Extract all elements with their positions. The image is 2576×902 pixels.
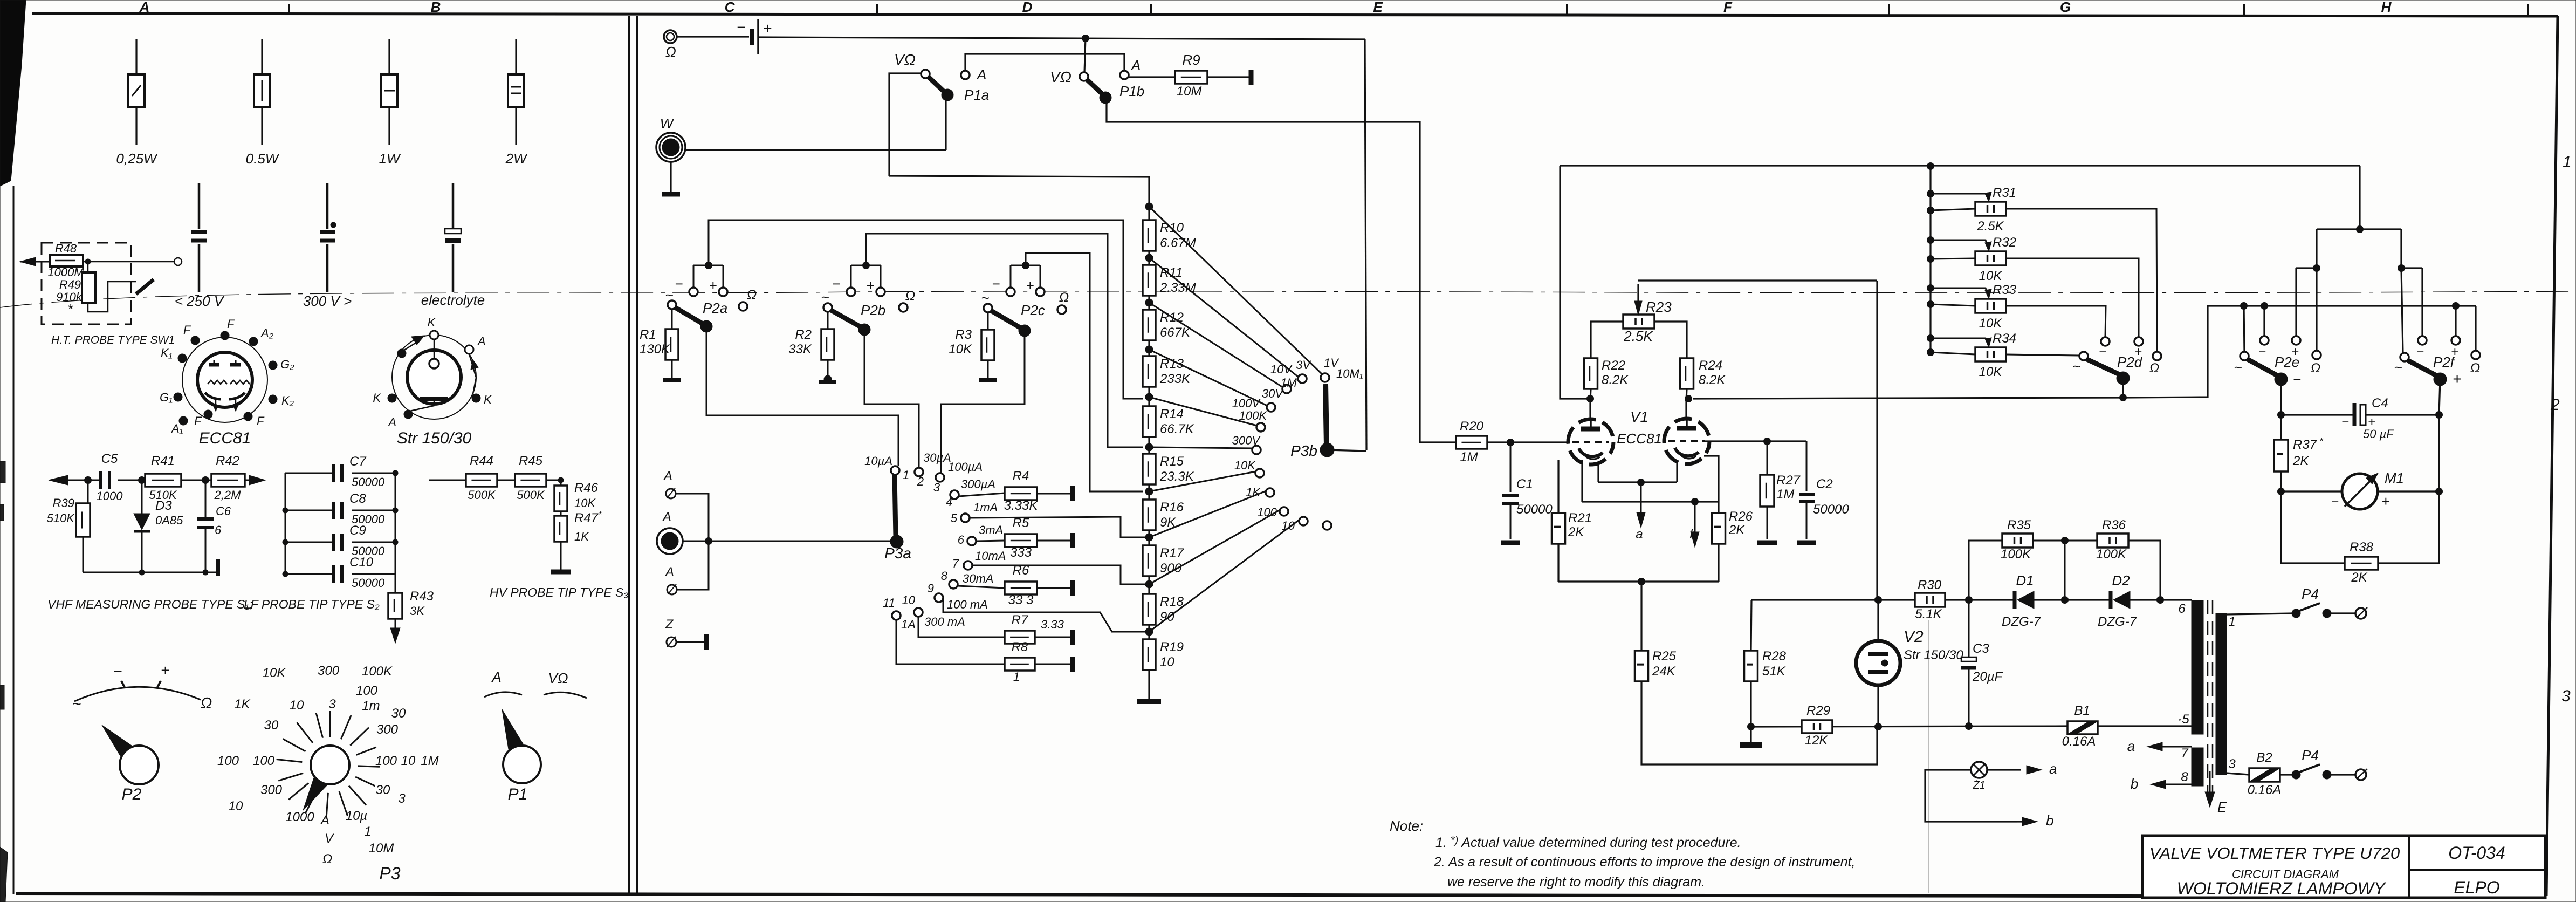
svg-text:20µF: 20µF (1972, 669, 2003, 684)
resistor R1 (665, 309, 678, 360)
svg-text:Ω: Ω (2311, 361, 2320, 375)
R31 out wire (2006, 209, 2157, 352)
svg-text:7: 7 (952, 557, 959, 570)
svg-text:HV PROBE TIP TYPE S₃: HV PROBE TIP TYPE S₃ (490, 585, 629, 599)
P3a arm dot (890, 535, 903, 548)
junction dot A (705, 538, 712, 545)
svg-text:H: H (2381, 0, 2392, 15)
battery plus label (763, 20, 772, 37)
P2e out (2278, 379, 2285, 419)
svg-text:B2: B2 (2256, 750, 2272, 765)
P2e arm (2248, 359, 2277, 375)
probe arrow left (20, 257, 51, 266)
svg-text:2. As a result of continuo: 2. As a result of continuous efforts to … (1433, 855, 1855, 870)
svg-text:R3: R3 (955, 327, 972, 342)
legend resistor 0.5W (254, 39, 270, 145)
P2e minus contact (2258, 336, 2269, 359)
label 50000-1 (352, 512, 385, 526)
label R21 (1568, 511, 1592, 525)
svg-text:~: ~ (72, 695, 81, 712)
junction dot D2 out (2157, 597, 2164, 604)
resistor R3 (981, 312, 994, 360)
svg-text:R35: R35 (2007, 518, 2031, 532)
svg-text:300 mA: 300 mA (924, 615, 965, 628)
svg-text:10: 10 (401, 754, 416, 768)
svg-text:a: a (2127, 738, 2135, 754)
svg-text:R42: R42 (216, 454, 239, 468)
svg-text:a: a (1636, 527, 1643, 542)
resistor R9 (1175, 71, 1207, 84)
P2b bracket (847, 262, 885, 297)
terminal A upper open (666, 488, 676, 498)
svg-text:8.2K: 8.2K (1699, 373, 1726, 387)
terminal A lower open (667, 584, 677, 594)
label A main (662, 510, 671, 524)
svg-text:A: A (976, 66, 986, 83)
svg-text:33K: 33K (788, 342, 812, 357)
svg-text:2: 2 (917, 475, 924, 488)
R34 out wire (2006, 354, 2079, 356)
svg-text:−: − (2293, 371, 2301, 387)
label R39 (53, 496, 74, 510)
svg-text:P2c: P2c (1021, 302, 1045, 318)
svg-text:10K: 10K (1979, 269, 2003, 283)
svg-text:C7: C7 (349, 454, 367, 469)
P2a Omega contact (739, 288, 757, 311)
P2d minus contact (2099, 337, 2110, 359)
scan mark bottom-left (0, 847, 8, 902)
svg-text:R34: R34 (1993, 331, 2016, 346)
R24 anode dot (1685, 395, 1692, 402)
resistor R43 (388, 593, 402, 619)
wire R6 out (1037, 587, 1070, 589)
svg-text:6: 6 (2178, 602, 2186, 616)
label P1b (1119, 83, 1144, 99)
label 3.33K (1004, 498, 1039, 513)
meter rail (2244, 305, 2476, 306)
P2c arm wire to contact3 (941, 334, 1025, 473)
svg-text:50000: 50000 (352, 576, 385, 590)
svg-text:R17: R17 (1160, 546, 1185, 561)
wire terminal-battery (677, 36, 749, 37)
label minus C4 (2341, 415, 2349, 429)
label 0A85 (155, 514, 183, 527)
border tick (2527, 4, 2529, 15)
svg-text:100 mA: 100 mA (947, 598, 988, 611)
border tick (1150, 4, 1152, 15)
trimmer R31 (1975, 202, 2006, 216)
svg-text:100: 100 (375, 754, 397, 768)
svg-text:3: 3 (2561, 687, 2571, 705)
svg-text:P4: P4 (2302, 747, 2319, 763)
label A P1a (976, 66, 986, 83)
svg-text:1. *) Actual value determine: 1. *) Actual value determined during tes… (1435, 835, 1741, 850)
R24 bottom lead (1686, 389, 1687, 400)
P2a tilde contact (665, 287, 676, 309)
P2e sub-bracket (2296, 268, 2317, 351)
P2c tilde contact (981, 290, 992, 312)
svg-text:R49: R49 (59, 278, 81, 291)
svg-text:Ω: Ω (2470, 361, 2480, 375)
svg-text:0A85: 0A85 (155, 514, 183, 527)
svg-text:C3: C3 (1973, 641, 1989, 656)
bus dot R34 b (1927, 349, 1934, 356)
P3b contact labels (1232, 356, 1363, 532)
label Note (1390, 818, 1423, 834)
triode V1a (1568, 419, 1613, 464)
trimmer R30 (1915, 593, 1945, 607)
resistor R2 (821, 312, 834, 360)
label R5 (1013, 516, 1029, 530)
label 7 (2181, 746, 2189, 761)
label P1 (508, 785, 528, 803)
svg-text:P1: P1 (508, 785, 528, 803)
svg-text:~: ~ (981, 290, 989, 306)
resistor R27 (1760, 441, 1774, 539)
arrow a (1637, 482, 1645, 528)
resistor R15 (1143, 454, 1156, 484)
wire chain above R14 (1148, 387, 1150, 406)
note line 1 (1435, 835, 1741, 850)
P2d arm (2087, 359, 2119, 374)
resistor R18 (1143, 594, 1156, 625)
svg-text:−: − (737, 19, 745, 36)
sheet top border (32, 13, 2558, 16)
label R37 (2293, 436, 2324, 452)
cathode bar b (1582, 501, 1719, 502)
label R10 (1160, 221, 1184, 235)
svg-text:100: 100 (217, 754, 239, 768)
border letter A (139, 0, 150, 15)
resistor R49 (82, 262, 95, 303)
svg-text:3.33K: 3.33K (1004, 498, 1039, 513)
wire chain above R10 (1148, 207, 1150, 220)
svg-text:R46: R46 (574, 481, 599, 495)
svg-text:0.5W: 0.5W (246, 151, 280, 167)
wire chain above R17 (1148, 530, 1150, 545)
R28 riser (1751, 600, 1751, 651)
P2 knob (102, 725, 159, 784)
label R14 (1160, 407, 1184, 421)
R36 right wire (2128, 541, 2160, 596)
label plus C4 (2368, 415, 2375, 429)
R22 anode dot (1587, 395, 1594, 402)
C4 row left (2281, 414, 2353, 415)
svg-text:R11: R11 (1160, 265, 1183, 280)
svg-text:10µ: 10µ (346, 809, 368, 823)
ground R3 (979, 360, 997, 380)
label 51K (1762, 664, 1786, 679)
border letter F (1723, 0, 1733, 15)
P2f sub-bracket (2401, 268, 2422, 353)
wire chain above R11 (1148, 251, 1150, 265)
tube ECC81 pin dots and labels (160, 317, 294, 435)
psu lower rail (1751, 726, 2067, 727)
svg-text:A: A (664, 565, 674, 579)
label Str 150/30 V2 (1904, 648, 1963, 662)
label electrolyte (421, 292, 485, 308)
svg-text:−: − (2416, 345, 2424, 359)
contact 100V (1256, 423, 1265, 432)
title block box (2142, 836, 2545, 898)
label D3 (155, 498, 172, 513)
V1b anode lead (1685, 400, 1687, 419)
title VALVE VOLTMETER (2149, 844, 2400, 863)
cathode bar a (1598, 481, 1677, 483)
terminator R5 (1070, 533, 1075, 548)
svg-text:1M: 1M (1280, 376, 1297, 389)
svg-text:B1: B1 (2074, 703, 2090, 718)
svg-text:·5: ·5 (2177, 712, 2189, 727)
P4 switch upper (2292, 603, 2355, 618)
label R16 value (1160, 515, 1176, 530)
label 0.16A B2 (2248, 783, 2282, 797)
P2f plus contact (2451, 336, 2460, 359)
svg-text:10K: 10K (1234, 459, 1256, 472)
svg-text:C6: C6 (216, 504, 231, 518)
label R19 (1160, 640, 1184, 654)
svg-text:R38: R38 (2350, 540, 2374, 555)
battery (752, 19, 758, 54)
resistor R37 (2274, 415, 2288, 471)
svg-text:10K: 10K (263, 666, 286, 680)
legend panel divider double line (629, 16, 637, 894)
P2b arm (831, 310, 861, 327)
wire c5 long (970, 517, 1145, 537)
V1b cathode leads (1677, 456, 1719, 513)
contact 7 P3a (964, 561, 972, 570)
resistor R28 (1744, 651, 1758, 681)
label HV probe (490, 585, 629, 599)
label 2,2M (214, 488, 242, 502)
label C6 (216, 504, 231, 518)
V1a cathode leads (1582, 460, 1598, 502)
label R14 value (1160, 422, 1194, 436)
meter M1 (2342, 473, 2378, 509)
rail dot P2f plus (2453, 303, 2460, 310)
row number 2 (2550, 396, 2560, 414)
label C5 (101, 452, 118, 466)
label R13 value (1159, 372, 1191, 386)
label R31 (1993, 186, 2016, 200)
label 5.1K (1915, 607, 1942, 621)
label V2 (1904, 628, 1924, 646)
wire chain above R18 (1148, 576, 1150, 594)
label 12K (1805, 733, 1829, 748)
note line 3 (1447, 874, 1705, 890)
label 50000-3 (352, 576, 385, 590)
svg-text:6: 6 (958, 533, 965, 546)
P1a contact A (961, 71, 970, 79)
terminator Z (704, 634, 709, 650)
svg-text:9: 9 (928, 582, 934, 595)
wire pin1 (2227, 613, 2293, 614)
tap wire 100V (1149, 397, 1257, 426)
svg-text:D3: D3 (155, 498, 172, 513)
wire c4-R4 (959, 493, 1005, 496)
svg-text:R41: R41 (151, 454, 175, 468)
resistor R14 (1143, 406, 1156, 437)
junction dot P1b riser (1082, 35, 1089, 42)
wire W to P1a arm (685, 149, 946, 151)
svg-text:H.T. PROBE TYPE SW1: H.T. PROBE TYPE SW1 (51, 334, 175, 346)
label 3.33-2 (1041, 618, 1064, 631)
svg-text:R36: R36 (2102, 518, 2126, 532)
title block divider (2409, 836, 2545, 898)
label 1M R27 (1776, 487, 1794, 502)
label R15 value (1159, 469, 1194, 484)
resistor R13 (1143, 356, 1156, 387)
svg-text:R27: R27 (1776, 473, 1801, 488)
svg-text:10: 10 (290, 698, 304, 713)
P2c arm dot (1019, 325, 1031, 337)
label P4 upper (2302, 586, 2319, 602)
svg-text:1: 1 (903, 468, 909, 482)
resistor R17 (1143, 545, 1156, 576)
wire c10-R7 (918, 617, 1005, 637)
label 1 (1013, 670, 1020, 684)
svg-text:~: ~ (821, 289, 829, 305)
wire P3b to supply (1327, 450, 1366, 451)
P1a arm riser (945, 99, 946, 150)
svg-text:8: 8 (941, 569, 948, 583)
label LF probe (244, 597, 380, 611)
tube Str150/30 pins (373, 316, 492, 429)
svg-text:A: A (1130, 57, 1141, 73)
scan dark edge top-left (0, 0, 26, 186)
junction dot a (1638, 479, 1645, 486)
resistor R24 (1680, 358, 1694, 389)
svg-text:Ω: Ω (665, 44, 676, 60)
ground R28 (1740, 727, 1762, 745)
P2a arm dot (700, 320, 712, 332)
junction dot b (1692, 498, 1699, 505)
label 0,25W (116, 151, 158, 167)
svg-text:1K: 1K (1246, 486, 1261, 499)
junction dot C3 top (1966, 597, 1973, 604)
svg-text:P2f: P2f (2433, 354, 2456, 370)
wire chain above R15 (1148, 437, 1150, 454)
svg-text:R28: R28 (1762, 649, 1787, 664)
svg-text:300µA: 300µA (961, 477, 995, 491)
contact 3 P3a (936, 473, 944, 482)
capacitor C8 (283, 502, 398, 519)
contact 1K (1266, 488, 1274, 497)
P1b contact A (1120, 71, 1129, 79)
svg-text:D: D (1022, 0, 1033, 15)
label B2 (2256, 750, 2272, 765)
svg-text:−: − (113, 663, 122, 680)
P1b riser (1084, 38, 1086, 72)
wire R37-M1 (2278, 471, 2285, 495)
svg-text:R20: R20 (1460, 419, 1484, 434)
wire c9 long (943, 600, 1145, 632)
label R46 (574, 481, 599, 495)
svg-text:P1b: P1b (1119, 83, 1144, 99)
psu top rail (1751, 599, 1915, 600)
bus branch R33 lead (1931, 304, 1975, 306)
wire c7 long (972, 565, 1145, 584)
terminal Z (667, 637, 676, 647)
contact 10 P3a (914, 608, 923, 617)
C4 row right (2366, 414, 2439, 415)
P2a arm wire to contact1 (706, 330, 898, 466)
label R30 (1918, 578, 1942, 592)
label R3 (955, 327, 972, 342)
label R18 (1160, 594, 1184, 609)
P2b tilde contact (821, 289, 832, 312)
label C8 (349, 491, 366, 506)
cathode bottom rail (1558, 544, 1719, 582)
ground S3 (551, 542, 571, 572)
wire chain above R13 (1148, 340, 1150, 356)
svg-text:A: A (663, 469, 672, 483)
label M1 (2385, 470, 2404, 486)
svg-text:M1: M1 (2385, 470, 2404, 486)
ground S1 (217, 559, 219, 576)
svg-text:2K: 2K (2292, 454, 2309, 468)
label 5 (2177, 712, 2189, 727)
svg-text:C9: C9 (349, 523, 366, 538)
svg-text:+: + (866, 277, 874, 293)
contact 3V (1298, 374, 1307, 383)
legend resistor 1W (381, 39, 397, 145)
label 2W (505, 151, 528, 167)
svg-text:R33: R33 (1993, 283, 2017, 297)
V2 riser top (1877, 600, 1879, 641)
label Omega terminal (665, 44, 676, 60)
R32 out wire (2006, 258, 2139, 337)
resistor R4 (1005, 487, 1037, 500)
terminal P4 upper (2355, 607, 2367, 619)
label 50000 C2 (1813, 502, 1849, 517)
svg-text:2K: 2K (1568, 525, 1584, 539)
wire c11-R8 (896, 620, 1005, 664)
contact 4 P3a (950, 490, 959, 499)
svg-text:10V: 10V (1270, 363, 1293, 376)
svg-text:A: A (662, 510, 671, 524)
svg-text:1: 1 (364, 824, 371, 839)
label R8 (1012, 640, 1028, 654)
svg-text:A₁: A₁ (170, 422, 183, 435)
border letter G (2060, 0, 2071, 15)
top supply wire (758, 37, 1365, 39)
svg-text:−: − (2258, 345, 2266, 359)
svg-text:W: W (660, 115, 675, 132)
label R23 (1646, 299, 1672, 315)
label b lamp (2046, 812, 2053, 829)
contact circle SW1 (174, 258, 182, 265)
svg-text:R15: R15 (1160, 454, 1184, 469)
trimmer R33 (1975, 299, 2006, 313)
label 2.5K R23 (1623, 328, 1653, 344)
label minus M1 (2331, 495, 2339, 509)
P2b minus plus (832, 276, 874, 293)
label R33 value (1979, 316, 2003, 331)
svg-text:VΩ: VΩ (1050, 69, 1071, 85)
P1 labels (491, 669, 568, 686)
tap wire 1V (1149, 207, 1322, 374)
trimmer R34 (1975, 347, 2006, 361)
svg-text:100K: 100K (2001, 547, 2031, 562)
P1a pivot feed (889, 73, 922, 176)
svg-text:OT-034: OT-034 (2448, 843, 2505, 863)
svg-text:3: 3 (2228, 757, 2236, 771)
junction dot S1-a (85, 477, 92, 484)
border tick (288, 4, 290, 15)
border letter H (2381, 0, 2392, 15)
junction dot S1-c (202, 477, 209, 484)
